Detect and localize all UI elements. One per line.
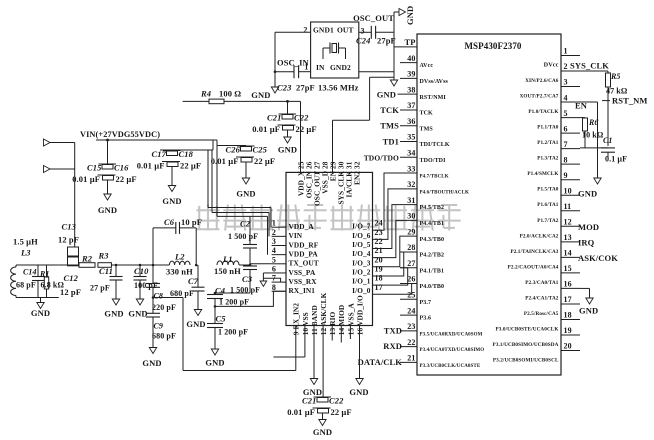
U2 pin 33 stub <box>400 164 449 179</box>
svg-text:22 µF: 22 µF <box>180 161 201 171</box>
wire U1 pin15 stub <box>349 326 351 340</box>
svg-text:68 pF: 68 pF <box>16 281 36 290</box>
U1 bottom pin 15 VSS_A <box>346 302 355 335</box>
U1 top pin 31 IA/CLK <box>344 161 353 197</box>
capacitors C21 C22 bottom bypass pair <box>287 396 352 438</box>
U1 pin 7 VSS_RX <box>272 274 318 286</box>
svg-text:0.01 µF: 0.01 µF <box>252 124 280 134</box>
capacitors C15 C16 bypass pair <box>72 163 137 216</box>
svg-text:15: 15 <box>564 264 572 273</box>
svg-text:C6: C6 <box>164 217 175 227</box>
svg-text:GND: GND <box>349 387 368 397</box>
wire U1 pin8 RX_IN1 <box>215 291 286 306</box>
svg-text:TXD: TXD <box>384 325 402 335</box>
svg-text:12: 12 <box>564 218 572 227</box>
svg-text:OUT: OUT <box>337 26 354 35</box>
svg-text:10 pF: 10 pF <box>181 217 202 227</box>
junction dots <box>106 139 251 308</box>
svg-text:VDD_A: VDD_A <box>289 222 315 231</box>
svg-text:1 200 pF: 1 200 pF <box>219 298 249 307</box>
wire U2 pin16 to ground <box>580 288 590 298</box>
capacitor C6 10pF bridge <box>153 217 202 265</box>
svg-text:OSC_IN: OSC_IN <box>277 58 310 68</box>
supply rail v1 <box>208 150 271 227</box>
antenna input arrow 2 <box>44 166 75 173</box>
U2 pin 37 stub <box>400 101 433 116</box>
net label TDO/TDO at U2 pin34 <box>364 153 399 162</box>
svg-text:GND: GND <box>205 358 224 368</box>
svg-text:23: 23 <box>407 322 415 331</box>
IC U2 MSP430F2370 body <box>417 34 561 375</box>
wire VIN to v3 <box>213 140 217 216</box>
svg-text:21: 21 <box>375 246 383 255</box>
ground arrow tank <box>31 298 50 319</box>
svg-text:GND2: GND2 <box>330 63 351 72</box>
svg-text:12 pF: 12 pF <box>58 235 79 245</box>
U2 pin 2 stub <box>525 62 580 84</box>
U2 pin 15 stub <box>525 264 580 286</box>
svg-text:GND: GND <box>31 308 50 318</box>
svg-text:I/O_5: I/O_5 <box>352 240 371 249</box>
svg-text:C9: C9 <box>154 322 164 331</box>
svg-text:GND: GND <box>128 309 147 319</box>
svg-text:C23: C23 <box>277 83 292 93</box>
wire U1 pin6 VSS_PA to ground <box>263 273 271 281</box>
svg-text:MOD: MOD <box>578 222 599 232</box>
svg-text:VSS_PA: VSS_PA <box>289 268 316 277</box>
U2 pin 19 stub <box>493 326 580 348</box>
svg-text:3: 3 <box>272 237 276 246</box>
rail C17 C18 <box>160 149 213 151</box>
U2 pin 11 stub <box>537 202 580 224</box>
svg-text:TDO/TDI: TDO/TDI <box>420 158 447 164</box>
U1 pin 24 I/O_7 <box>352 219 383 231</box>
svg-text:TX_OUT: TX_OUT <box>289 259 319 268</box>
tank circuit rails <box>16 265 59 298</box>
net label RST_NM <box>602 96 648 106</box>
svg-text:20: 20 <box>375 255 383 264</box>
svg-text:2: 2 <box>564 62 568 71</box>
wire U1 pin13 stub <box>331 326 333 341</box>
svg-text:P4.1/TB1: P4.1/TB1 <box>420 268 445 274</box>
net label GND below U1 right <box>349 387 368 397</box>
ground arrow below U1 pins 9 10 11 <box>310 379 317 385</box>
U1 pin 8 RX_IN1 <box>272 283 316 295</box>
net label TMS at U2 pin36 <box>380 121 399 131</box>
svg-text:P3.4/UCA0TXD/UCA0SIMO: P3.4/UCA0TXD/UCA0SIMO <box>420 348 485 353</box>
svg-text:GND: GND <box>186 319 205 329</box>
U1 bottom pin 12 ASK/CLK <box>319 292 328 335</box>
junction R4 to C21 <box>286 100 289 103</box>
svg-text:10 kΩ: 10 kΩ <box>582 131 604 140</box>
wire I/O_1 to U2 pin 27 <box>373 268 408 285</box>
svg-text:0.01 µF: 0.01 µF <box>137 161 165 171</box>
U2 pin 22 stub <box>400 338 484 353</box>
net label GND left of oscillator <box>251 90 270 100</box>
U2 pin 32 stub <box>400 180 469 195</box>
U1 top pin 29 EN <box>328 161 337 181</box>
IC U1 transceiver body <box>286 172 373 325</box>
svg-text:C14: C14 <box>23 268 37 277</box>
U2 pin 14 stub <box>508 249 580 271</box>
U2 pin 7 stub <box>537 140 580 162</box>
svg-text:1.5 µH: 1.5 µH <box>13 237 38 247</box>
svg-text:MSP430F2370: MSP430F2370 <box>464 41 521 51</box>
U1 pin 4 VDD_PA <box>272 246 319 258</box>
net label SYS_CLK <box>570 61 609 71</box>
svg-text:C3: C3 <box>242 274 253 284</box>
svg-text:RST/NMI: RST/NMI <box>420 95 447 101</box>
svg-text:21: 21 <box>407 354 415 363</box>
svg-text:3: 3 <box>361 27 365 36</box>
svg-text:11: 11 <box>564 202 572 211</box>
svg-text:9: 9 <box>564 171 568 180</box>
svg-text:P2.3/CA0/TA1: P2.3/CA0/TA1 <box>525 280 559 286</box>
U2 pin 20 stub <box>493 342 580 364</box>
resistor R4 100ohm <box>183 89 301 104</box>
wire C8 junction to RX return <box>153 298 183 371</box>
net label EN <box>575 101 588 111</box>
svg-text:C15: C15 <box>87 163 102 173</box>
svg-text:4: 4 <box>272 246 276 255</box>
U2 pin 3 stub <box>520 78 580 100</box>
capacitor C4 1200pF <box>207 286 249 307</box>
svg-text:C21: C21 <box>302 396 316 406</box>
svg-text:GND: GND <box>579 306 598 316</box>
capacitor C23 27pF <box>275 65 315 92</box>
svg-text:I/O_0: I/O_0 <box>352 286 371 295</box>
net label TD1 at U2 pin35 <box>383 137 399 147</box>
svg-text:GND: GND <box>251 90 270 100</box>
U2 pin 1 stub <box>544 47 580 69</box>
wire oscillator corner to EN29 <box>333 77 395 172</box>
capacitor C5 1200pF <box>205 306 248 367</box>
svg-text:19: 19 <box>564 326 572 335</box>
wire EN vertical <box>580 102 598 178</box>
wire I/O_6 to U2 pin 32 <box>373 189 401 240</box>
svg-text:DVcc: DVcc <box>544 61 559 68</box>
U1 top pin 27 OSC_OUT <box>312 161 321 206</box>
net label GND at U2 pin17 <box>579 306 598 316</box>
svg-text:17: 17 <box>564 295 572 304</box>
U1 bottom pin 11 BAND <box>310 305 319 335</box>
svg-text:R3: R3 <box>98 251 110 261</box>
U2 pin 9 stub <box>537 171 580 193</box>
capacitor C14 68pF <box>16 265 44 298</box>
svg-text:27 pF: 27 pF <box>90 284 110 293</box>
svg-text:GND: GND <box>405 6 415 25</box>
U1 pin 21 I/O_4 <box>352 246 383 258</box>
svg-text:30: 30 <box>407 212 415 221</box>
svg-text:P2.5/Rosc/CA5: P2.5/Rosc/CA5 <box>524 311 559 317</box>
svg-text:38: 38 <box>407 85 415 94</box>
svg-text:5: 5 <box>272 255 276 264</box>
U1 pin 5 TX_OUT <box>272 255 319 267</box>
wire I/O_3 to U2 pin 29 <box>373 236 401 267</box>
net label TXD at U2 pin23 <box>384 325 402 335</box>
svg-text:19: 19 <box>375 264 383 273</box>
net label MOD <box>578 222 599 232</box>
inductor L3 1.5uH <box>11 237 38 296</box>
svg-text:35: 35 <box>407 133 415 142</box>
wire VIN down to C17 rail <box>212 140 214 150</box>
U1 top pin 32 EN2 <box>352 161 361 185</box>
svg-text:L2: L2 <box>174 252 185 262</box>
svg-text:I/O_1: I/O_1 <box>352 277 371 286</box>
svg-text:GND: GND <box>104 309 123 319</box>
svg-text:GND: GND <box>98 205 117 215</box>
svg-text:P1.6/TA1: P1.6/TA1 <box>537 202 559 208</box>
U2 pin 13 stub <box>510 233 580 255</box>
svg-text:5: 5 <box>564 109 568 118</box>
svg-text:0.01 µF: 0.01 µF <box>211 156 239 166</box>
U2 pin 31 stub <box>400 196 444 211</box>
svg-text:P3.0/UCB0STE/UCA0CLK: P3.0/UCB0STE/UCA0CLK <box>496 326 559 332</box>
svg-text:VIN: VIN <box>289 231 303 240</box>
U2 pin 30 stub <box>400 212 444 227</box>
capacitors C26 C25 bypass pair <box>211 145 276 199</box>
svg-text:4: 4 <box>564 93 568 102</box>
resistor R3 <box>98 251 112 268</box>
net label RXD at U2 pin22 <box>383 341 402 351</box>
svg-text:7: 7 <box>564 140 568 149</box>
U2 pin 4 stub <box>528 93 580 115</box>
svg-text:TDI/TCLK: TDI/TCLK <box>420 142 450 148</box>
U2 pin 26 stub <box>400 275 444 290</box>
U1 bottom pin 16 VDD_I/O <box>355 295 364 335</box>
svg-text:DATA/CLK: DATA/CLK <box>358 357 403 367</box>
antenna input arrow 1 <box>44 139 75 146</box>
U1 pin 1 VDD_A <box>272 219 315 231</box>
svg-text:R6: R6 <box>588 118 599 127</box>
svg-text:RST_NM: RST_NM <box>612 96 648 106</box>
svg-text:13: 13 <box>564 233 572 242</box>
svg-text:1: 1 <box>272 219 276 228</box>
svg-text:C22: C22 <box>329 396 344 406</box>
svg-text:14: 14 <box>564 249 572 258</box>
U2 pin 29 stub <box>400 227 444 242</box>
U1 top pin 28 VSS_D <box>320 161 329 193</box>
supply rail v2 <box>212 150 269 236</box>
U1 top pin 26 OSC_IN <box>304 161 313 198</box>
svg-text:220 pF: 220 pF <box>152 303 176 312</box>
U2 pin 28 stub <box>400 243 444 258</box>
svg-text:13.56 MHz: 13.56 MHz <box>318 83 359 93</box>
svg-text:P3.6: P3.6 <box>420 316 432 322</box>
svg-text:22 µF: 22 µF <box>331 407 352 417</box>
svg-text:24: 24 <box>407 306 415 315</box>
wire main line R3 to L2 <box>112 264 170 266</box>
U1 top pin 25 VDD_X <box>296 161 305 196</box>
svg-text:TMS: TMS <box>380 121 399 131</box>
svg-text:33: 33 <box>407 164 415 173</box>
resistor R2 <box>79 254 95 268</box>
svg-text:32: 32 <box>407 180 415 189</box>
svg-text:P1.0/TACLK: P1.0/TACLK <box>528 109 558 115</box>
svg-text:TP: TP <box>404 37 415 47</box>
svg-text:22: 22 <box>407 338 415 347</box>
svg-text:R2: R2 <box>81 254 93 264</box>
svg-text:330 nH: 330 nH <box>166 267 193 277</box>
wire U1 pin12 to bottom bypass <box>322 326 324 397</box>
U2 pin 18 stub <box>496 311 580 333</box>
U1 bottom pin 9 RX_IN2 <box>292 303 301 335</box>
wire U1 pin16 to ground <box>359 326 361 379</box>
svg-text:0.01 µF: 0.01 µF <box>72 174 100 184</box>
svg-text:2: 2 <box>303 26 307 35</box>
svg-text:I/O_3: I/O_3 <box>352 258 371 267</box>
U1 pin 20 I/O_3 <box>352 255 383 267</box>
svg-text:TMS: TMS <box>420 126 434 132</box>
svg-text:IN: IN <box>316 63 325 72</box>
oscillator pin labels <box>303 26 364 73</box>
wire I/O_2 to U2 pin 28 <box>373 252 404 276</box>
svg-text:26: 26 <box>407 275 415 284</box>
svg-text:P2.0/ACLK/CA2: P2.0/ACLK/CA2 <box>520 233 559 239</box>
ground arrow EN wire <box>594 178 601 184</box>
wire oscillator pin2 to ground <box>275 32 311 87</box>
U2 pin 21 stub <box>400 354 481 369</box>
wire main line left <box>59 264 79 266</box>
svg-text:18: 18 <box>564 311 572 320</box>
U1 pin 6 VSS_PA <box>272 264 316 276</box>
svg-text:C22: C22 <box>294 113 309 123</box>
svg-text:680 pF: 680 pF <box>152 332 176 341</box>
wire I/O_7 to U2 pin 33 <box>373 173 401 230</box>
ground arrow oscillator pin2 <box>271 87 278 93</box>
U2 pin 27 stub <box>400 259 444 274</box>
junction osc pin2 OSC_IN tee <box>274 70 277 73</box>
svg-text:I/O_6: I/O_6 <box>352 231 371 240</box>
U2 pin 25 stub <box>400 291 431 306</box>
svg-text:AVcc: AVcc <box>420 63 434 69</box>
svg-text:1 500 pF: 1 500 pF <box>228 232 258 241</box>
svg-text:VDD_RF: VDD_RF <box>289 240 319 249</box>
svg-text:18: 18 <box>375 274 383 283</box>
wire RX return long horizontal <box>183 370 296 372</box>
wire antenna to C13 <box>73 143 75 248</box>
svg-text:16: 16 <box>564 280 572 289</box>
svg-text:VSS_RX: VSS_RX <box>289 277 318 286</box>
svg-text:XIN/P2.6/CA6: XIN/P2.6/CA6 <box>525 78 559 84</box>
U1 bottom pin 14 MIOD <box>337 305 346 336</box>
wire U2 pin7 to C1 <box>580 147 608 149</box>
net label ASK/COK <box>578 253 618 263</box>
svg-text:C4: C4 <box>215 286 225 296</box>
supply rail v3 to pins 3 4 <box>217 216 268 254</box>
junction VIN to C15 <box>106 139 109 164</box>
U2 pin 10 stub <box>537 186 580 208</box>
svg-text:P4.7/TBCLK: P4.7/TBCLK <box>420 175 449 180</box>
wire C3 bottom rail <box>215 292 250 294</box>
svg-text:0.1 µF: 0.1 µF <box>605 155 627 164</box>
resistor R6 10k <box>580 118 604 148</box>
svg-text:40: 40 <box>407 54 415 63</box>
svg-text:22: 22 <box>375 237 383 246</box>
svg-text:C10: C10 <box>134 266 149 276</box>
GND flag top right <box>394 6 415 25</box>
svg-text:28: 28 <box>407 243 415 252</box>
svg-text:VIN(+27VDG55VDC): VIN(+27VDG55VDC) <box>80 130 160 139</box>
ground arrow below oscillator right <box>390 78 397 87</box>
svg-text:L1: L1 <box>222 254 233 264</box>
svg-text:8: 8 <box>564 155 568 164</box>
svg-text:P1.2/TA1: P1.2/TA1 <box>537 140 559 146</box>
svg-text:C7: C7 <box>188 276 199 286</box>
svg-text:C17: C17 <box>152 149 167 159</box>
svg-text:24: 24 <box>375 219 383 228</box>
U1 bottom pin 10 VSS <box>301 312 310 335</box>
svg-text:TD1: TD1 <box>383 137 399 147</box>
capacitor C10 100pF <box>128 265 158 319</box>
wire R4 to VDD_X pin25 <box>300 101 302 172</box>
net label IRQ <box>578 238 595 248</box>
svg-text:C12: C12 <box>64 273 79 283</box>
net label DATA/CLK at U2 pin21 <box>358 357 403 367</box>
wire SYS_CLK to R5 <box>580 70 608 72</box>
svg-text:C5: C5 <box>216 314 227 324</box>
svg-text:20: 20 <box>564 342 572 351</box>
svg-text:150 nH: 150 nH <box>214 266 241 276</box>
svg-text:C26: C26 <box>226 145 241 155</box>
net label GND below U1 left <box>303 387 322 397</box>
svg-text:I/O_4: I/O_4 <box>352 249 371 258</box>
capacitor C9 680pF <box>142 298 176 369</box>
net label OSC_IN <box>277 58 310 68</box>
svg-text:P2.1/TAINCLK/CA3: P2.1/TAINCLK/CA3 <box>510 249 558 255</box>
svg-text:100 Ω: 100 Ω <box>219 89 241 99</box>
svg-text:C1: C1 <box>603 136 613 145</box>
svg-text:17: 17 <box>375 283 383 292</box>
svg-text:GND: GND <box>236 189 255 199</box>
oscillator module Y1 body <box>311 22 359 78</box>
svg-text:P3.3/UCB0CLK/UCA0STE: P3.3/UCB0CLK/UCA0STE <box>420 364 481 369</box>
net label GND at U2 pin10 <box>578 189 597 199</box>
svg-text:27pF: 27pF <box>377 36 396 46</box>
svg-text:6: 6 <box>564 124 568 133</box>
wire U1 pin10 VSS down <box>273 326 305 358</box>
svg-text:680 pF: 680 pF <box>170 289 194 298</box>
svg-text:31: 31 <box>407 196 415 205</box>
svg-text:P2.2/CAOUT/A0/CA4: P2.2/CAOUT/A0/CA4 <box>508 264 559 270</box>
U1 pin 22 I/O_5 <box>352 237 383 249</box>
svg-text:6: 6 <box>272 264 276 273</box>
U2 pin 39 stub <box>400 70 449 85</box>
svg-text:IRQ: IRQ <box>578 238 595 248</box>
svg-text:I/O_2: I/O_2 <box>352 267 371 276</box>
svg-text:P4.3/TB0: P4.3/TB0 <box>420 237 445 243</box>
capacitor C7 680pF <box>170 265 206 329</box>
label 13.56 MHz <box>318 83 359 93</box>
svg-text:TDO/TDO: TDO/TDO <box>364 153 399 162</box>
U2 pin 34 stub <box>400 148 446 163</box>
svg-text:27pF: 27pF <box>296 83 315 93</box>
svg-text:10: 10 <box>564 186 572 195</box>
svg-text:GND: GND <box>578 189 597 199</box>
wire U1 pin14 stub <box>340 326 342 343</box>
capacitors C17 C18 bypass pair <box>137 149 202 206</box>
svg-text:22 µF: 22 µF <box>116 174 137 184</box>
net label OSC_OUT <box>353 13 394 23</box>
wire I/O_5 to U2 pin 31 <box>373 205 401 249</box>
wire L1 to C2 node <box>239 264 272 265</box>
wire oscillator pin4 GND2 <box>359 71 394 73</box>
svg-text:P1.3/TA2: P1.3/TA2 <box>537 156 559 162</box>
svg-text:100 pF: 100 pF <box>134 281 158 290</box>
svg-text:P3.7: P3.7 <box>420 300 432 306</box>
inductor L1 150nH <box>214 254 241 276</box>
svg-text:SYS_CLK: SYS_CLK <box>570 61 609 71</box>
